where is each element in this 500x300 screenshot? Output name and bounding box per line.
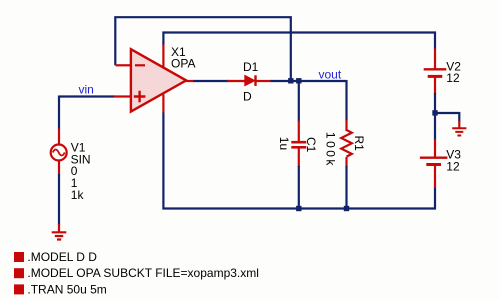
wire: vout node down to C1 top bbox=[298, 80, 300, 122]
svg-text:.MODEL OPA SUBCKT FILE=xopamp3: .MODEL OPA SUBCKT FILE=xopamp3.xml bbox=[27, 266, 259, 280]
wire: diode anode red lead bbox=[228, 80, 246, 82]
svg-text:vout: vout bbox=[319, 67, 342, 81]
wire: V3 top red lead bbox=[434, 139, 436, 157]
wire: op-amp bottom red pin stub bbox=[162, 95, 164, 113]
svg-text:1k: 1k bbox=[71, 188, 85, 202]
svg-text:OPA: OPA bbox=[171, 57, 195, 71]
wire: V2 bottom red lead bbox=[434, 78, 436, 95]
wire: feedback net from vout node up and over to inverting input bbox=[115, 17, 290, 78]
capacitor C1 top plate bbox=[291, 141, 306, 144]
battery V2 long plus plate bbox=[424, 68, 447, 70]
source V1 sine squiggle bbox=[53, 150, 65, 156]
svg-text:12: 12 bbox=[446, 71, 460, 85]
directive marker square 3 bbox=[14, 284, 24, 294]
op-amp X1 triangle body bbox=[131, 49, 186, 111]
op-amp plus symbol bbox=[134, 91, 146, 103]
wire: output net to diode anode bbox=[194, 80, 229, 82]
wire: C1 bottom red lead bbox=[298, 148, 300, 167]
supply ground symbol (right) bbox=[452, 128, 466, 135]
wire: V2 top red lead bbox=[434, 49, 436, 70]
wire: vout net down to R1 top bbox=[345, 80, 347, 121]
svg-text:100k: 100k bbox=[323, 132, 337, 168]
junction at vout node left (feedback tap) bbox=[288, 78, 293, 83]
wire: vout net horizontal through junctions to R1 corner bbox=[271, 80, 347, 82]
ground symbol below V1 bbox=[52, 232, 67, 239]
wire: non-inverting input red pin stub bbox=[114, 95, 132, 97]
op-amp minus symbol bbox=[135, 64, 145, 66]
wire: R1 top red lead bbox=[345, 120, 347, 132]
wire: op-amp top red pin stub bbox=[162, 45, 164, 68]
wire: power net from op-amp top pin to V2 plus bbox=[163, 33, 435, 50]
svg-text:1u: 1u bbox=[277, 137, 291, 150]
wire: supply ground red stub bbox=[458, 121, 460, 129]
svg-text:.MODEL D D: .MODEL D D bbox=[27, 250, 97, 264]
battery V3 short minus plate bbox=[426, 163, 441, 166]
junction at vout node right (C1 tap) bbox=[296, 78, 301, 83]
wire: V3 bottom red lead bbox=[434, 166, 436, 189]
wire: C1 top red lead bbox=[298, 121, 300, 142]
directive marker square 1 bbox=[14, 252, 24, 262]
wire: R1 bottom red lead bbox=[345, 157, 347, 167]
diode D1 cathode bar bbox=[254, 75, 256, 86]
svg-text:R1: R1 bbox=[352, 136, 366, 152]
wire: diode cathode red lead bbox=[256, 80, 272, 82]
wire: bottom bus from op-amp negative supply pin to V3 minus bbox=[163, 112, 435, 209]
battery V3 long plus plate bbox=[420, 156, 448, 158]
wire: R1 bottom to ground bus bbox=[345, 166, 347, 209]
capacitor C1 bottom plate bbox=[291, 146, 306, 149]
wire: op-amp output red pin stub bbox=[186, 80, 195, 82]
wire: V1 top red lead bbox=[58, 129, 60, 146]
diode D1 body bbox=[245, 76, 254, 86]
wire: C1 bottom to ground bus bbox=[298, 166, 300, 209]
wire: vin net vertical down to V1 bbox=[58, 96, 60, 130]
svg-text:C1: C1 bbox=[304, 137, 318, 153]
battery V2 short minus plate bbox=[428, 75, 443, 78]
junction at bus / R1 bottom bbox=[344, 206, 349, 211]
svg-text:D1: D1 bbox=[243, 60, 259, 74]
ground red stub below V1 bbox=[58, 224, 60, 232]
junction at bus / C1 bottom bbox=[296, 206, 301, 211]
wire: inverting input red pin stub bbox=[116, 64, 132, 66]
svg-text:D: D bbox=[243, 90, 252, 104]
source V1 circle body bbox=[51, 145, 67, 161]
directive marker square 2 bbox=[14, 268, 24, 278]
wire: mid junction right to supply ground bbox=[435, 113, 459, 122]
wire: V1 to ground bbox=[58, 174, 60, 225]
wire: vin net horizontal to non-inverting input bbox=[59, 95, 115, 97]
junction at V2/V3 midpoint bbox=[432, 110, 437, 115]
svg-text:12: 12 bbox=[446, 159, 460, 173]
svg-text:.TRAN 50u 5m: .TRAN 50u 5m bbox=[27, 283, 106, 297]
resistor R1 zigzag body bbox=[341, 130, 352, 157]
wire: V2 minus down to mid junction bbox=[434, 93, 436, 140]
svg-text:vin: vin bbox=[79, 83, 94, 97]
wire: V1 bottom red lead bbox=[58, 160, 60, 175]
